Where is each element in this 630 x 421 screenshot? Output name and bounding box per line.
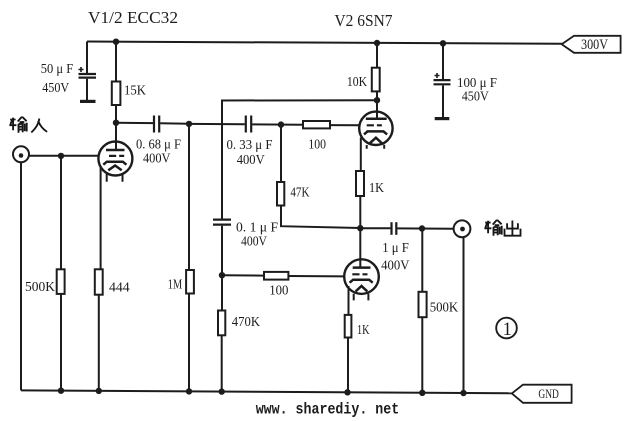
circled number 1 (496, 318, 517, 340)
svg-text:400V: 400V (143, 152, 171, 167)
svg-text:V2 6SN7: V2 6SN7 (335, 11, 393, 30)
wire 0.33uF to grid node (252, 123, 303, 125)
capacitor C 50uF electrolytic (79, 67, 97, 101)
svg-text:1M: 1M (168, 277, 183, 292)
resistor 444 (95, 269, 103, 294)
resistor 100 grid stopper lower (264, 272, 288, 280)
wire V2b cathode to 1K (348, 286, 350, 315)
junction rail 500K output (419, 390, 425, 396)
svg-text:V1/2 ECC32: V1/2 ECC32 (88, 8, 178, 27)
svg-text:500K: 500K (25, 280, 55, 295)
wire 47K to mid row (281, 206, 360, 229)
wire 470K to rail (221, 335, 223, 391)
label 0.33uF 400V (227, 138, 273, 168)
resistor 100 grid stopper upper (303, 121, 330, 128)
resistor 1K upper (356, 171, 364, 196)
resistor 1K lower (345, 315, 352, 338)
junction 47K node (278, 121, 284, 127)
resistor 47K (277, 182, 284, 206)
svg-text:100: 100 (269, 283, 288, 298)
tube V2a 6SN7 triode (359, 100, 392, 149)
svg-text:450V: 450V (462, 89, 489, 104)
svg-text:400V: 400V (241, 235, 267, 250)
ground flag GND (512, 385, 572, 403)
svg-text:1 μ F: 1 μ F (382, 241, 409, 256)
resistor 10K (372, 68, 380, 92)
junction 500K output node (419, 225, 425, 231)
svg-text:1K: 1K (369, 181, 384, 196)
wire 1K lower to rail (347, 338, 349, 393)
label 0.1uF 400V (236, 221, 278, 250)
wire 1M to rail (188, 294, 190, 392)
capacitor 0.1uF (213, 220, 231, 225)
wire output terminal to rail (463, 237, 465, 392)
wire 1M column (188, 124, 190, 270)
wire 1K to mid node (359, 196, 361, 228)
junction rail 500K (58, 388, 64, 394)
resistor 15K (112, 82, 121, 106)
junction mid node (357, 225, 363, 231)
svg-text:300V: 300V (581, 37, 608, 53)
svg-text:0. 68 μ F: 0. 68 μ F (136, 138, 181, 153)
label output 输出 (484, 220, 520, 236)
wire top B+ rail (87, 42, 562, 44)
junction plate node V1 (113, 120, 119, 126)
capacitor 1uF (392, 222, 397, 235)
wire 50uF drop (86, 42, 88, 74)
junction 1M node (186, 121, 192, 127)
svg-text:www. sharediy. net: www. sharediy. net (256, 401, 400, 419)
junction lower grid node (219, 272, 225, 278)
junction rail output terminal (460, 390, 466, 396)
wire rail to 10K (376, 43, 378, 68)
label input 输入 (9, 117, 47, 133)
wire 500K output drop (421, 229, 423, 292)
wire 0.68uF to junction (160, 122, 189, 125)
label 0.68uF 400V (136, 138, 181, 167)
wire lower grid row (222, 274, 264, 276)
svg-text:100: 100 (308, 138, 326, 153)
wire input terminal to ground rail (20, 162, 22, 390)
svg-text:400V: 400V (237, 153, 265, 168)
wire 500K output to rail (421, 317, 423, 392)
wire plate node to 0.68uF (116, 122, 153, 124)
tube V2b 6SN7 triode (344, 228, 379, 300)
junction top rail / 100uF (440, 40, 446, 46)
junction rail 1M (186, 388, 192, 394)
input terminal (13, 146, 29, 162)
wire 100 to V2a grid (330, 124, 359, 126)
junction rail 470K (219, 388, 225, 394)
wire V2a cathode to 1K (360, 138, 362, 172)
wire input to V1 grid (29, 155, 99, 157)
label 100uF 450V (457, 76, 497, 105)
wire 100 to V2b grid (288, 275, 344, 277)
power flag 300V (562, 36, 621, 53)
wire mid node to 1uF (360, 227, 390, 229)
svg-text:500K: 500K (430, 300, 459, 315)
svg-text:1K: 1K (357, 323, 370, 338)
tube V1 ECC32 triode (98, 142, 132, 182)
capacitor 0.68uF (154, 116, 159, 133)
wire feedback top horizontal (222, 100, 377, 219)
wire 500K drop upper (60, 156, 62, 269)
svg-text:10K: 10K (347, 75, 367, 90)
svg-text:47K: 47K (290, 185, 309, 200)
junction rail 444 (96, 388, 102, 394)
wire 1uF to output (397, 227, 453, 229)
wire ground rail (21, 390, 512, 393)
label 1uF 400V (381, 241, 409, 274)
capacitor C 100uF electrolytic (434, 43, 451, 118)
svg-text:0. 33 μ F: 0. 33 μ F (227, 138, 273, 153)
wire 47K drop (280, 125, 282, 182)
junction top rail / 15K (113, 39, 119, 45)
resistor 1M (186, 270, 194, 294)
wire rail to 15K (115, 42, 117, 82)
capacitor 0.33uF (246, 116, 251, 133)
wire 15K to plate node (115, 105, 117, 150)
svg-text:GND: GND (538, 386, 559, 401)
resistor 470K (218, 311, 225, 336)
junction top rail / 10K (374, 40, 380, 46)
junction V2a plate node (374, 97, 380, 103)
svg-text:400V: 400V (381, 258, 409, 273)
svg-text:444: 444 (109, 281, 130, 296)
junction rail 1K lower (344, 389, 350, 395)
junction input / 500K (58, 153, 64, 159)
svg-text:450V: 450V (42, 81, 69, 96)
wire 444 to rail (98, 295, 100, 391)
wire 500K drop lower (60, 294, 62, 391)
svg-text:50 μ F: 50 μ F (41, 62, 74, 77)
output terminal (454, 220, 471, 237)
svg-text:0. 1 μ F: 0. 1 μ F (236, 221, 278, 236)
resistor 500K input (57, 269, 65, 294)
wire V1 cathode to 444 (100, 166, 102, 269)
wire 10K to V2a plate (376, 91, 378, 119)
wire junction to 0.33uF (189, 123, 245, 125)
svg-text:470K: 470K (232, 315, 260, 330)
svg-text:1: 1 (503, 320, 512, 340)
svg-text:15K: 15K (124, 84, 146, 99)
wire 0.1uF to lower grid node (221, 226, 223, 311)
label 50uF 450V (41, 62, 74, 96)
resistor 500K output (419, 292, 427, 317)
